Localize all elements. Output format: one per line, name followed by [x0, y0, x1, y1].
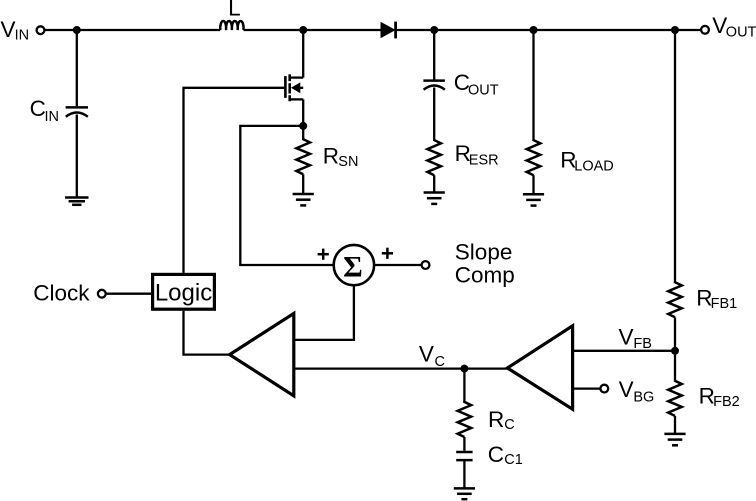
logic box [153, 274, 215, 309]
resistor RSN [296, 139, 310, 175]
svg-text:LOAD: LOAD [574, 159, 614, 175]
label RC [488, 407, 515, 433]
label RSN [323, 144, 359, 170]
wire MOSFET source [302, 99, 304, 139]
wire top rail VIN to inductor [45, 29, 221, 31]
wire RLOAD to ground [532, 175, 534, 194]
resistor RFB2 [668, 380, 682, 416]
plus sign right input [382, 248, 393, 259]
wire RSN to ground [302, 174, 304, 194]
capacitor COUT [423, 81, 445, 90]
svg-text:Comp: Comp [455, 263, 515, 288]
label RFB1 [696, 286, 737, 313]
label Slope Comp [455, 239, 515, 287]
junction VIN node [73, 26, 81, 34]
label CIN [30, 96, 59, 125]
svg-text:FB: FB [633, 336, 652, 352]
junction VFB node [671, 347, 679, 355]
resistor RC [458, 401, 472, 437]
ground CC1 [454, 488, 475, 499]
label COUT [454, 70, 499, 99]
junction RLOAD node [530, 26, 538, 34]
label VIN [1, 17, 30, 44]
resistor RESR [427, 140, 441, 176]
svg-text:IN: IN [15, 28, 30, 44]
wire RFB2 to ground [674, 416, 676, 434]
svg-text:R: R [488, 407, 504, 432]
wire COUT to RESR [433, 88, 435, 140]
svg-text:SN: SN [338, 154, 358, 170]
svg-text:OUT: OUT [726, 25, 756, 41]
wire inductor to diode [244, 29, 382, 31]
wire comparator output to logic [184, 311, 230, 355]
svg-text:C: C [30, 96, 46, 121]
wire summer to slope comp terminal [374, 264, 422, 266]
terminal VBG [600, 385, 608, 393]
label VFB [619, 324, 652, 352]
label VC [419, 342, 445, 370]
svg-text:C: C [488, 442, 504, 467]
junction VC node [460, 365, 468, 373]
ground CIN [65, 198, 88, 205]
wire RC to CC1 [463, 437, 465, 451]
wire CIN bottom [76, 115, 78, 198]
op-amp U3 error amplifier [507, 326, 572, 409]
wire MOSFET drain [302, 30, 304, 78]
ground RSN [293, 194, 314, 205]
svg-text:V: V [619, 324, 634, 349]
svg-text:Clock: Clock [33, 280, 90, 305]
terminal VOUT [701, 26, 709, 34]
ground RLOAD [523, 194, 544, 205]
diode D1 [381, 22, 396, 39]
wire RFB1 to junction [674, 317, 676, 380]
terminal Clock [98, 290, 106, 298]
capacitor CIN [66, 107, 88, 116]
wire current sense to summer [240, 126, 332, 265]
terminal slope comp [422, 261, 430, 269]
label Clock [33, 280, 90, 305]
svg-text:C: C [435, 354, 445, 370]
capacitor CC1 [456, 452, 472, 460]
junction COUT node [430, 26, 438, 34]
ground RESR [424, 193, 445, 204]
label CC1 [488, 442, 523, 468]
op-amp U1 PWM comparator [230, 313, 294, 395]
wire Clock to logic [106, 293, 152, 295]
label RESR [455, 141, 499, 168]
resistor RFB1 [668, 282, 682, 318]
wire CIN top [76, 30, 78, 106]
junction VOUT node [671, 26, 679, 34]
svg-text:IN: IN [45, 109, 60, 125]
wire VC line [294, 367, 508, 369]
svg-text:FB1: FB1 [711, 296, 738, 312]
wire MOSFET gate [184, 88, 285, 273]
svg-text:Σ: Σ [343, 250, 363, 283]
svg-text:C1: C1 [504, 452, 523, 468]
svg-text:Slope: Slope [455, 239, 513, 264]
junction switch node [299, 26, 307, 34]
label RFB2 [699, 384, 740, 411]
label VOUT [712, 13, 756, 41]
svg-text:V: V [1, 17, 16, 42]
wire RLOAD top [532, 30, 534, 140]
wire RESR to ground [433, 175, 435, 192]
junction current sense node [299, 122, 307, 130]
wire COUT top [433, 30, 435, 80]
plus sign left input [318, 249, 329, 260]
wire error amp output to VFB node [573, 350, 675, 352]
transistor M1 [285, 74, 303, 101]
ground RFB2 [664, 434, 685, 445]
svg-text:BG: BG [633, 389, 654, 405]
wire VC to RC [463, 369, 465, 402]
terminal VIN [37, 26, 45, 34]
resistor RLOAD [527, 140, 541, 176]
wire VOUT rail down to RFB1 [674, 30, 676, 282]
wire diode to VOUT [397, 29, 702, 31]
wire summer output down [294, 285, 354, 340]
svg-text:Logic: Logic [155, 280, 212, 307]
svg-text:V: V [419, 342, 434, 367]
svg-text:FB2: FB2 [713, 394, 740, 410]
label L [228, 0, 241, 20]
wire VBG input [573, 387, 601, 389]
wire CC1 to ground [463, 460, 465, 488]
svg-text:ESR: ESR [469, 152, 499, 168]
svg-text:OUT: OUT [468, 83, 499, 99]
inductor L [220, 21, 243, 30]
svg-text:C: C [504, 417, 514, 433]
label VBG [619, 377, 655, 405]
summer circle U2 [334, 245, 374, 285]
svg-text:R: R [323, 144, 339, 169]
svg-text:L: L [228, 0, 241, 20]
svg-text:V: V [619, 377, 634, 402]
label RLOAD [560, 147, 614, 174]
